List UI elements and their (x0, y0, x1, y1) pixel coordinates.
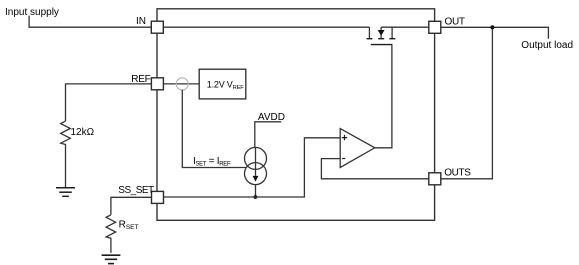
junction SS_SET node (254, 195, 258, 199)
regulator box U1 (157, 9, 435, 221)
wire op-amp output to MOSFET gate (375, 45, 392, 148)
wire IN to MOSFET source rail (163, 26, 369, 28)
svg-text:REF: REF (131, 74, 150, 85)
junction OUT node (490, 25, 494, 29)
op-amp U2 (340, 129, 375, 168)
wire MOSFET drain rail to OUT (381, 26, 429, 28)
ground (RSET) (102, 255, 121, 263)
wire input supply lead (29, 16, 151, 28)
wire REF to 12k resistor (66, 84, 152, 121)
wire AVDD to current source (254, 122, 256, 148)
current source I1 (245, 147, 267, 184)
pin SS_SET (152, 191, 164, 203)
svg-text:OUT: OUT (445, 17, 465, 28)
wire current source to SS_SET rail (255, 185, 257, 197)
wire OUTS feedback to op-amp - input (321, 159, 428, 179)
node REF circle (176, 78, 188, 90)
svg-text:OUTS: OUTS (444, 168, 471, 179)
ground (12k) (56, 188, 75, 197)
pin IN (151, 21, 163, 33)
svg-text:IN: IN (136, 16, 146, 27)
resistor RSET (106, 215, 116, 253)
svg-text:12kΩ: 12kΩ (71, 127, 95, 138)
resistor 12k (61, 121, 71, 187)
pin OUT (429, 21, 441, 33)
transistor Q1 pass MOSFET (369, 27, 392, 38)
svg-text:Input supply: Input supply (5, 7, 59, 18)
pin REF (151, 78, 163, 90)
pin OUTS (429, 173, 441, 185)
wire REF node to ISET current source (182, 90, 246, 168)
wire SS_SET to RSET (111, 197, 152, 215)
wire OUTS sense line up to OUT node (441, 27, 493, 179)
wire SS_SET rail to op-amp + input (164, 138, 341, 197)
block 1.2V VREF (199, 69, 246, 99)
svg-text:Output load: Output load (521, 40, 573, 51)
svg-text:SS_SET: SS_SET (118, 185, 154, 196)
wire OUT to output load (441, 27, 549, 39)
wire REF to VREF block (163, 83, 199, 85)
